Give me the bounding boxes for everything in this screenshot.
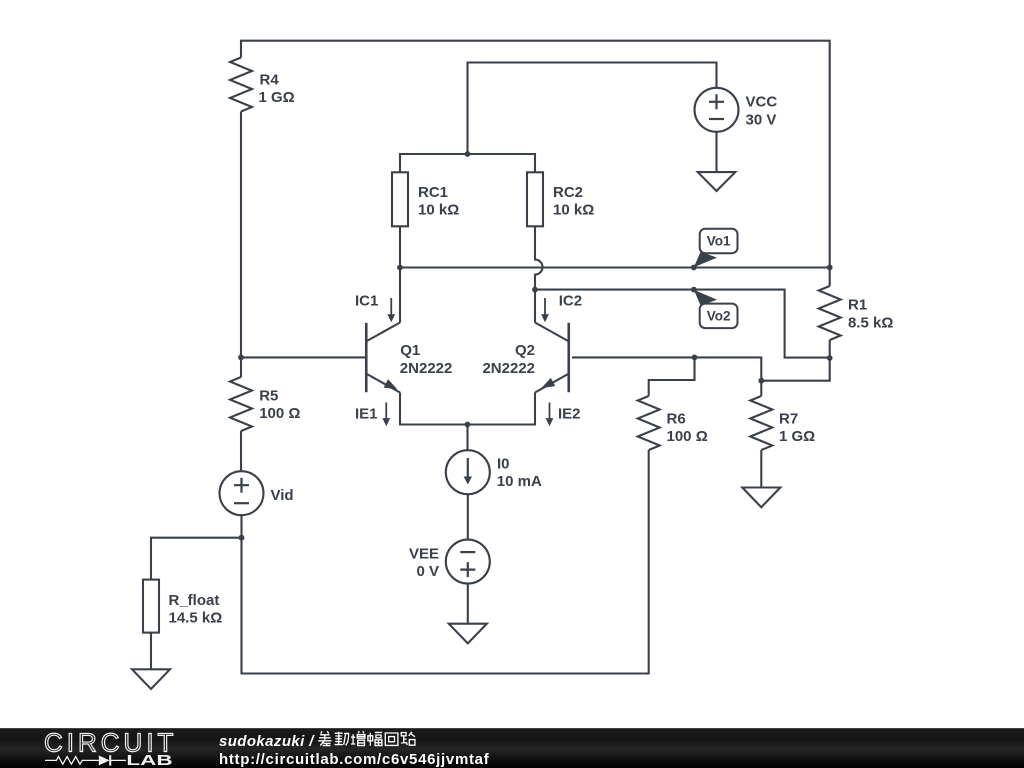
resistor R5 xyxy=(230,377,252,431)
wire Vo2 row xyxy=(535,290,830,358)
svg-text:Q2: Q2 xyxy=(515,342,535,359)
svg-text:Vo1: Vo1 xyxy=(707,234,731,249)
voltage source Vid xyxy=(220,471,264,515)
svg-text:sudokazuki /: sudokazuki / xyxy=(219,733,315,750)
node Q2 base junction xyxy=(692,355,698,361)
node R1 bottom junction xyxy=(827,355,833,361)
ground below R_float xyxy=(132,669,170,689)
svg-text:Vid: Vid xyxy=(271,487,294,504)
wire Q1 collector xyxy=(399,268,401,323)
wire Q2 collector xyxy=(534,290,536,323)
svg-text:VCC: VCC xyxy=(746,94,778,111)
kanji RO (road) xyxy=(401,732,415,745)
current arrow IC2 xyxy=(541,298,549,322)
node RC1/RC2 supply junction xyxy=(465,151,471,157)
svg-text:IC1: IC1 xyxy=(355,292,378,309)
resistor R1 leads xyxy=(829,267,831,358)
svg-text:IC2: IC2 xyxy=(559,292,582,309)
svg-text:1 GΩ: 1 GΩ xyxy=(259,89,295,106)
svg-text:R1: R1 xyxy=(848,297,867,314)
svg-text:R_float: R_float xyxy=(169,592,220,609)
svg-text:100 Ω: 100 Ω xyxy=(259,405,300,422)
footer bar xyxy=(0,728,1024,768)
kanji FUKU (width) xyxy=(368,732,382,745)
wire Q2 emitter xyxy=(468,393,536,425)
svg-text:10 kΩ: 10 kΩ xyxy=(553,202,594,219)
svg-text:R6: R6 xyxy=(667,410,686,427)
wire top rail xyxy=(241,41,830,268)
wire I0 to VEE xyxy=(467,494,469,539)
resistor R7 top lead xyxy=(760,381,762,396)
flag Vo2 xyxy=(694,290,738,328)
wire VCC to ground xyxy=(715,132,717,172)
svg-text:R4: R4 xyxy=(260,71,280,88)
svg-text:8.5 kΩ: 8.5 kΩ xyxy=(848,314,893,331)
wire RC2 bottom with hop xyxy=(535,226,543,289)
wire R5 top lead xyxy=(240,357,242,377)
svg-text:VEE: VEE xyxy=(409,545,439,562)
ground below R7 xyxy=(742,488,780,508)
svg-text:100 Ω: 100 Ω xyxy=(667,428,708,445)
kanji ZOU (increase) xyxy=(351,731,365,745)
svg-text:2N2222: 2N2222 xyxy=(482,360,535,377)
transistor Q2 xyxy=(535,323,569,393)
svg-text:10 kΩ: 10 kΩ xyxy=(418,202,459,219)
current arrow IE1 xyxy=(382,403,390,427)
node Vo2 flag junction xyxy=(691,287,697,293)
resistor R_float xyxy=(143,580,159,633)
svg-text:Vo2: Vo2 xyxy=(707,309,731,324)
kanji SA (difference) xyxy=(318,731,331,745)
ground below VEE xyxy=(449,624,487,644)
wire node D to node E xyxy=(761,358,829,381)
current arrow IE2 xyxy=(546,403,554,427)
svg-text:14.5 kΩ: 14.5 kΩ xyxy=(169,610,223,627)
svg-text:IE1: IE1 xyxy=(355,406,378,423)
wire R4 bottom to base node xyxy=(240,112,242,358)
wire R7 to ground xyxy=(760,450,762,488)
wire Vo1 row xyxy=(400,266,830,268)
wire VEE to ground xyxy=(467,584,469,624)
svg-text:I0: I0 xyxy=(497,455,510,472)
node Vid bottom junction xyxy=(239,535,245,541)
kanji KAI (turn) xyxy=(385,733,398,745)
svg-text:R5: R5 xyxy=(259,387,278,404)
wire bottom rail xyxy=(242,450,649,674)
resistor RC2 xyxy=(527,172,543,226)
node RC2 bottom junction xyxy=(532,287,538,293)
svg-text:RC1: RC1 xyxy=(418,184,448,201)
current source I0 xyxy=(446,450,490,494)
voltage source VEE xyxy=(446,540,490,584)
svg-text:RC2: RC2 xyxy=(553,184,583,201)
transistor Q1 xyxy=(366,323,400,393)
wire Vid bottom to node xyxy=(240,515,242,538)
svg-text:IE2: IE2 xyxy=(558,406,581,423)
resistor R1 xyxy=(819,286,841,340)
svg-text:LAB: LAB xyxy=(126,753,172,768)
voltage source VCC xyxy=(695,88,739,132)
resistor RC1 xyxy=(392,172,408,226)
svg-text:R7: R7 xyxy=(779,410,798,427)
footer title CJK (hand-drawn) xyxy=(318,731,415,746)
wire Q2 base xyxy=(572,357,761,380)
svg-text:2N2222: 2N2222 xyxy=(400,360,453,377)
node Vo1 flag junction xyxy=(691,265,697,271)
svg-text:http://circuitlab.com/c6v546jj: http://circuitlab.com/c6v546jjvmtaf xyxy=(219,751,490,768)
svg-text:1 GΩ: 1 GΩ xyxy=(779,428,815,445)
resistor R4 xyxy=(230,58,252,112)
svg-text:10 mA: 10 mA xyxy=(497,473,542,490)
svg-text:Q1: Q1 xyxy=(400,342,420,359)
wire R_float to ground xyxy=(150,633,152,670)
svg-text:0 V: 0 V xyxy=(416,563,439,580)
logo zigzag diode xyxy=(45,755,126,765)
wire Q1 base xyxy=(241,356,365,358)
node right rail junction xyxy=(827,265,833,271)
wire Q1 emitter xyxy=(400,393,468,425)
wire R5 to Vid xyxy=(240,431,242,472)
node base Q1 junction xyxy=(238,355,244,361)
node emitter junction xyxy=(465,422,471,428)
wire RC1 top / rail to RC2 xyxy=(400,154,535,172)
ground below VCC xyxy=(698,172,736,191)
svg-text:30 V: 30 V xyxy=(746,111,777,128)
flag Vo1 xyxy=(694,229,738,268)
node RC1 bottom junction xyxy=(397,265,403,271)
wire RC1 bottom lead xyxy=(399,226,401,267)
wire supply riser xyxy=(468,63,717,155)
wire node to R_float xyxy=(151,538,242,580)
resistor R7 xyxy=(750,396,772,450)
wire emitter node to I0 xyxy=(466,425,468,451)
node R7 top junction xyxy=(758,378,764,384)
wire R6 top to Q2 base node xyxy=(649,357,695,396)
current arrow IC1 xyxy=(387,298,395,322)
resistor R6 xyxy=(638,396,660,450)
kanji DOU (motion) xyxy=(335,732,350,746)
